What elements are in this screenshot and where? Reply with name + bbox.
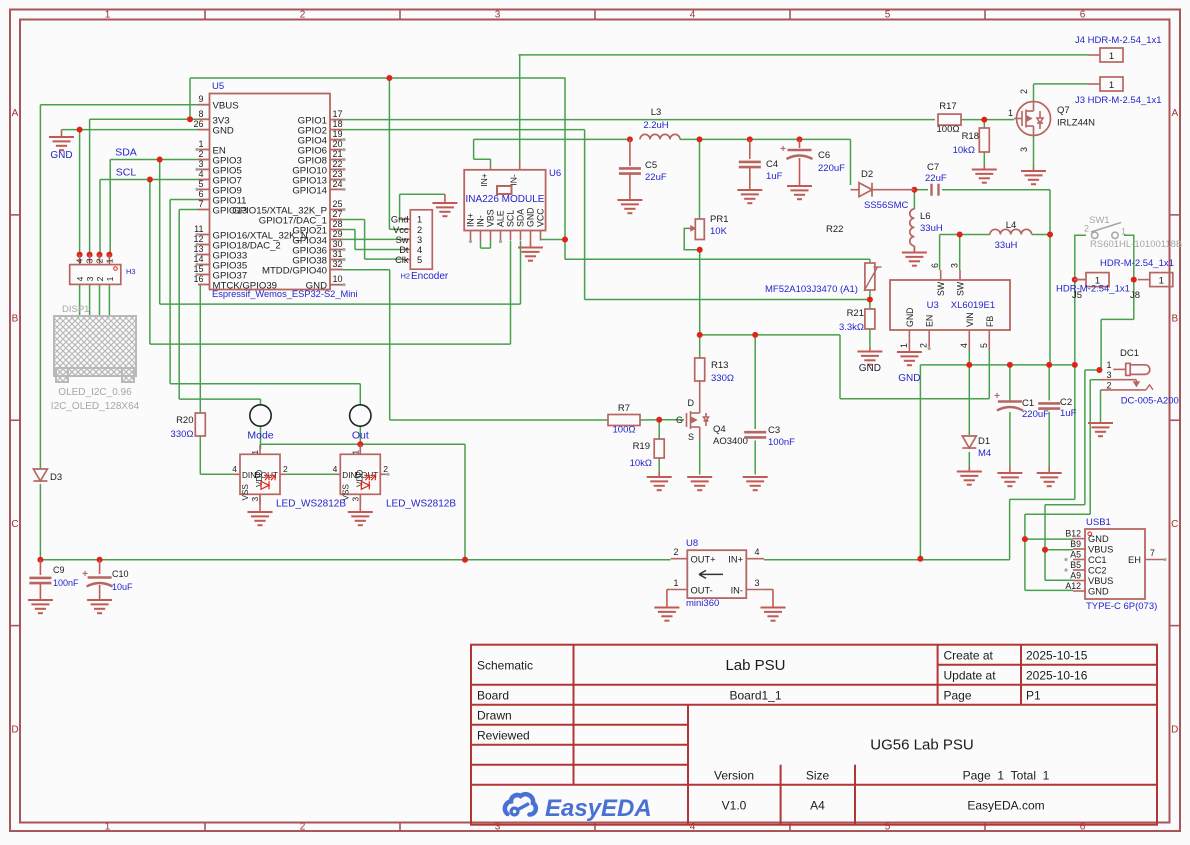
svg-text:V1.0: V1.0 <box>722 799 747 813</box>
svg-text:14: 14 <box>193 254 203 264</box>
svg-text:4: 4 <box>959 343 969 348</box>
svg-text:C3: C3 <box>768 425 780 436</box>
svg-text:Board: Board <box>477 689 509 703</box>
svg-text:D3: D3 <box>50 472 62 483</box>
svg-text:GND: GND <box>213 126 234 137</box>
svg-text:Dt: Dt <box>399 245 409 255</box>
svg-text:Reviewed: Reviewed <box>477 729 530 743</box>
svg-text:7: 7 <box>198 199 203 209</box>
svg-text:C6: C6 <box>818 150 830 161</box>
svg-text:A12: A12 <box>1065 581 1081 591</box>
svg-text:22uF: 22uF <box>645 172 667 183</box>
svg-text:CC1: CC1 <box>1088 555 1107 565</box>
svg-text:16: 16 <box>193 274 203 284</box>
svg-text:USB1: USB1 <box>1086 517 1111 528</box>
svg-text:4: 4 <box>690 822 696 833</box>
svg-text:100Ω: 100Ω <box>937 124 960 135</box>
svg-text:Encoder: Encoder <box>411 271 449 282</box>
svg-text:VBS: VBS <box>486 209 496 227</box>
svg-text:C9: C9 <box>53 565 65 575</box>
svg-text:3: 3 <box>350 497 360 502</box>
svg-text:2: 2 <box>1019 89 1029 94</box>
svg-text:31: 31 <box>333 249 343 259</box>
svg-text:DC1: DC1 <box>1120 348 1139 359</box>
svg-text:EasyEDA.com: EasyEDA.com <box>967 799 1044 813</box>
svg-text:C2: C2 <box>1060 397 1072 408</box>
svg-text:GND: GND <box>1088 587 1109 597</box>
svg-text:4: 4 <box>754 547 759 557</box>
svg-text:R18: R18 <box>962 131 979 142</box>
svg-text:U8: U8 <box>686 538 698 549</box>
svg-text:15: 15 <box>193 264 203 274</box>
svg-text:A: A <box>1171 108 1178 119</box>
svg-text:IN-: IN- <box>476 215 486 227</box>
svg-text:32: 32 <box>333 259 343 269</box>
svg-text:C1: C1 <box>1022 398 1034 409</box>
svg-text:C: C <box>11 519 18 530</box>
svg-text:Gnd: Gnd <box>391 215 409 225</box>
svg-text:XL6019E1: XL6019E1 <box>951 300 995 311</box>
svg-text:3: 3 <box>85 258 95 263</box>
svg-text:2: 2 <box>417 225 422 235</box>
svg-text:330Ω: 330Ω <box>171 429 194 440</box>
svg-text:2.2uH: 2.2uH <box>643 120 668 131</box>
svg-text:8: 8 <box>198 109 203 119</box>
svg-text:25: 25 <box>333 199 343 209</box>
svg-text:2: 2 <box>198 149 203 159</box>
svg-text:1: 1 <box>1109 80 1114 91</box>
svg-text:27: 27 <box>333 209 343 219</box>
svg-text:33uH: 33uH <box>920 223 943 234</box>
svg-text:A5: A5 <box>1070 550 1081 560</box>
svg-text:H2: H2 <box>401 272 411 281</box>
svg-text:Lab PSU: Lab PSU <box>725 657 785 674</box>
svg-text:IN-: IN- <box>509 174 519 186</box>
svg-text:10: 10 <box>333 274 343 284</box>
svg-text:GND: GND <box>50 150 72 161</box>
svg-text:VSS: VSS <box>241 484 250 501</box>
svg-text:R7: R7 <box>618 403 630 414</box>
svg-text:GND: GND <box>905 307 915 327</box>
svg-text:LED_WS2812B: LED_WS2812B <box>386 498 456 509</box>
svg-text:SW: SW <box>936 281 946 296</box>
svg-text:1: 1 <box>899 343 909 348</box>
svg-text:Update at: Update at <box>944 669 997 683</box>
svg-text:2: 2 <box>673 547 678 557</box>
svg-text:2: 2 <box>283 464 288 474</box>
svg-text:SDA: SDA <box>115 147 137 159</box>
svg-text:Q7: Q7 <box>1057 105 1070 116</box>
svg-text:3: 3 <box>85 276 95 281</box>
svg-text:2: 2 <box>300 822 306 833</box>
svg-text:GND: GND <box>1088 534 1109 544</box>
svg-text:2025-10-15: 2025-10-15 <box>1026 649 1088 663</box>
svg-text:FB: FB <box>985 316 995 327</box>
svg-text:220uF: 220uF <box>818 163 845 174</box>
svg-text:SCL: SCL <box>116 167 137 179</box>
svg-text:6: 6 <box>1080 10 1086 21</box>
svg-text:Create at: Create at <box>944 649 994 663</box>
svg-text:IRLZ44N: IRLZ44N <box>1057 118 1095 129</box>
svg-text:SW: SW <box>956 281 966 296</box>
svg-text:U6: U6 <box>549 168 561 179</box>
svg-text:INA226 MODULE: INA226 MODULE <box>466 194 545 205</box>
svg-text:1: 1 <box>1109 51 1114 62</box>
svg-text:VIN: VIN <box>965 312 975 327</box>
svg-text:13: 13 <box>193 244 203 254</box>
svg-text:4: 4 <box>75 258 85 263</box>
svg-text:+: + <box>994 391 1000 402</box>
svg-text:GPIO14: GPIO14 <box>292 185 327 196</box>
svg-text:19: 19 <box>333 129 343 139</box>
svg-text:1uF: 1uF <box>766 171 783 182</box>
svg-text:G: G <box>676 415 683 425</box>
svg-text:C5: C5 <box>645 160 657 171</box>
svg-text:SW1: SW1 <box>1089 215 1110 226</box>
svg-text:I2C_OLED_128X64: I2C_OLED_128X64 <box>51 401 140 412</box>
svg-text:OUT+: OUT+ <box>691 555 716 565</box>
svg-text:1: 1 <box>250 450 260 455</box>
svg-text:Q4: Q4 <box>713 424 726 435</box>
svg-text:SDA: SDA <box>516 209 526 227</box>
svg-text:Clk: Clk <box>395 255 409 265</box>
svg-text:D: D <box>688 398 695 408</box>
svg-text:3: 3 <box>495 10 501 21</box>
svg-text:HDR-M-2.54_1x1: HDR-M-2.54_1x1 <box>1056 284 1130 295</box>
svg-text:C4: C4 <box>766 159 778 170</box>
svg-text:DC-005-A200: DC-005-A200 <box>1121 396 1179 407</box>
svg-text:3: 3 <box>754 578 759 588</box>
svg-text:EN: EN <box>925 315 935 327</box>
svg-text:3: 3 <box>1106 370 1111 380</box>
svg-text:5: 5 <box>885 822 891 833</box>
svg-text:1uF: 1uF <box>1060 408 1077 419</box>
svg-text:UG56 Lab PSU: UG56 Lab PSU <box>870 737 973 754</box>
svg-text:Out: Out <box>352 430 369 442</box>
svg-text:VBUS: VBUS <box>1088 545 1113 555</box>
svg-text:1: 1 <box>1008 108 1013 118</box>
svg-text:18: 18 <box>333 119 343 129</box>
svg-text:TYPE-C 6P(073): TYPE-C 6P(073) <box>1086 601 1157 612</box>
svg-text:EasyEDA: EasyEDA <box>545 795 652 822</box>
svg-text:2: 2 <box>1084 224 1089 234</box>
svg-text:B9: B9 <box>1070 539 1081 549</box>
svg-text:R19: R19 <box>633 441 650 452</box>
svg-text:3: 3 <box>950 263 960 268</box>
svg-text:J4 HDR-M-2.54_1x1: J4 HDR-M-2.54_1x1 <box>1075 35 1162 46</box>
svg-text:10kΩ: 10kΩ <box>953 145 975 156</box>
svg-text:1: 1 <box>104 258 114 263</box>
svg-text:PR1: PR1 <box>710 214 728 225</box>
svg-text:4: 4 <box>75 276 85 281</box>
svg-text:M4: M4 <box>978 448 991 459</box>
svg-text:30: 30 <box>333 239 343 249</box>
svg-text:DISP1: DISP1 <box>62 304 89 315</box>
svg-text:SCL: SCL <box>506 210 516 227</box>
svg-text:MF52A103J3470 (A1): MF52A103J3470 (A1) <box>765 284 858 295</box>
svg-text:33uH: 33uH <box>995 240 1018 251</box>
svg-text:1: 1 <box>1159 276 1164 287</box>
svg-text:EH: EH <box>1128 555 1141 565</box>
svg-text:4: 4 <box>198 169 203 179</box>
svg-text:1: 1 <box>198 139 203 149</box>
svg-text:RS601HL-10100118B: RS601HL-10100118B <box>1090 239 1182 250</box>
svg-text:1: 1 <box>105 10 111 21</box>
svg-text:IN+: IN+ <box>728 555 743 565</box>
svg-text:SS56SMC: SS56SMC <box>864 200 908 211</box>
svg-text:Board1_1: Board1_1 <box>729 689 781 703</box>
svg-text:R22: R22 <box>826 224 843 235</box>
svg-text:9: 9 <box>198 94 203 104</box>
svg-text:28: 28 <box>333 219 343 229</box>
svg-text:ALE: ALE <box>496 210 506 227</box>
svg-text:1: 1 <box>350 450 360 455</box>
svg-text:A: A <box>12 108 19 119</box>
svg-text:J3 HDR-M-2.54_1x1: J3 HDR-M-2.54_1x1 <box>1075 95 1162 106</box>
svg-text:Sw: Sw <box>396 235 409 245</box>
svg-text:C10: C10 <box>112 569 129 579</box>
svg-text:5: 5 <box>979 343 989 348</box>
svg-text:2: 2 <box>919 343 929 348</box>
svg-text:12: 12 <box>193 234 203 244</box>
svg-text:3: 3 <box>1019 147 1029 152</box>
svg-text:L3: L3 <box>651 107 662 118</box>
svg-text:IN+: IN+ <box>479 173 489 187</box>
svg-text:22uF: 22uF <box>925 173 947 184</box>
svg-text:B5: B5 <box>1070 560 1081 570</box>
svg-text:B: B <box>1171 314 1178 325</box>
svg-text:R20: R20 <box>176 415 193 426</box>
svg-text:1: 1 <box>1106 360 1111 370</box>
svg-text:Page 1 Total 1: Page 1 Total 1 <box>963 769 1050 783</box>
svg-text:L6: L6 <box>920 211 931 222</box>
svg-text:1: 1 <box>1121 227 1126 237</box>
svg-text:1: 1 <box>105 822 111 833</box>
svg-text:2025-10-16: 2025-10-16 <box>1026 669 1088 683</box>
svg-text:R17: R17 <box>939 101 956 112</box>
svg-text:10uF: 10uF <box>112 582 133 592</box>
svg-text:D: D <box>11 724 18 735</box>
svg-text:6: 6 <box>1080 822 1086 833</box>
svg-text:U3: U3 <box>927 300 939 311</box>
svg-text:5: 5 <box>198 179 203 189</box>
svg-text:OLED_I2C_0.96: OLED_I2C_0.96 <box>58 387 132 398</box>
svg-text:10K: 10K <box>710 226 728 237</box>
svg-text:29: 29 <box>333 229 343 239</box>
svg-text:2: 2 <box>95 258 105 263</box>
svg-text:OUT-: OUT- <box>691 586 713 596</box>
svg-text:mini360: mini360 <box>686 598 719 609</box>
svg-text:Mode: Mode <box>247 430 273 442</box>
svg-text:3.3kΩ: 3.3kΩ <box>839 322 864 333</box>
svg-text:GND: GND <box>306 281 327 292</box>
svg-text:R21: R21 <box>847 308 864 319</box>
svg-text:CC2: CC2 <box>1088 566 1107 576</box>
svg-text:4: 4 <box>333 464 338 474</box>
svg-text:5: 5 <box>885 10 891 21</box>
svg-text:IN+: IN+ <box>466 213 476 227</box>
svg-text:GND: GND <box>526 207 536 227</box>
svg-text:5: 5 <box>417 255 422 265</box>
svg-text:VCC: VCC <box>536 208 546 227</box>
svg-text:1: 1 <box>673 578 678 588</box>
svg-text:GND: GND <box>859 363 881 374</box>
svg-text:+: + <box>82 569 88 580</box>
svg-text:D2: D2 <box>861 169 873 180</box>
svg-text:1: 1 <box>417 215 422 225</box>
svg-text:B12: B12 <box>1065 529 1081 539</box>
svg-text:4: 4 <box>232 464 237 474</box>
svg-text:4: 4 <box>417 245 422 255</box>
svg-text:J8: J8 <box>1130 290 1140 301</box>
svg-text:3: 3 <box>495 822 501 833</box>
svg-text:D: D <box>1171 724 1178 735</box>
svg-text:U5: U5 <box>212 81 224 92</box>
svg-text:1: 1 <box>105 276 115 281</box>
svg-text:7: 7 <box>1150 548 1155 558</box>
svg-text:220uF: 220uF <box>1022 409 1049 420</box>
svg-text:R13: R13 <box>711 360 728 371</box>
svg-text:22: 22 <box>333 159 343 169</box>
svg-text:VBUS: VBUS <box>1088 576 1113 586</box>
svg-text:H3: H3 <box>126 267 136 276</box>
svg-text:23: 23 <box>333 169 343 179</box>
svg-text:P1: P1 <box>1026 689 1041 703</box>
svg-text:Drawn: Drawn <box>477 709 512 723</box>
svg-text:330Ω: 330Ω <box>711 373 734 384</box>
svg-text:20: 20 <box>333 139 343 149</box>
svg-text:26: 26 <box>193 119 203 129</box>
svg-text:17: 17 <box>333 109 343 119</box>
svg-text:MTDD/GPIO40: MTDD/GPIO40 <box>262 266 327 277</box>
svg-text:Version: Version <box>714 769 754 783</box>
svg-text:VSS: VSS <box>341 484 350 501</box>
svg-text:4: 4 <box>690 10 696 21</box>
svg-text:24: 24 <box>333 179 343 189</box>
svg-text:100nF: 100nF <box>768 437 795 448</box>
svg-text:3: 3 <box>198 159 203 169</box>
svg-text:GND: GND <box>898 373 920 384</box>
svg-text:C7: C7 <box>927 162 939 173</box>
svg-text:2: 2 <box>383 464 388 474</box>
svg-text:C: C <box>1171 519 1178 530</box>
svg-text:IN-: IN- <box>731 586 743 596</box>
svg-text:AO3400: AO3400 <box>713 436 748 447</box>
svg-text:D1: D1 <box>978 436 990 447</box>
svg-text:3: 3 <box>417 235 422 245</box>
svg-text:3: 3 <box>250 497 260 502</box>
svg-text:10kΩ: 10kΩ <box>630 458 652 469</box>
svg-text:6: 6 <box>198 189 203 199</box>
svg-text:21: 21 <box>333 149 343 159</box>
svg-text:11: 11 <box>194 224 203 234</box>
svg-text:2: 2 <box>300 10 306 21</box>
svg-text:VBUS: VBUS <box>213 101 239 112</box>
svg-text:J5: J5 <box>1072 290 1082 301</box>
svg-text:100nF: 100nF <box>53 578 79 588</box>
svg-text:L4: L4 <box>1006 220 1017 231</box>
svg-text:Size: Size <box>806 769 830 783</box>
svg-text:2: 2 <box>95 276 105 281</box>
svg-text:Page: Page <box>944 689 972 703</box>
svg-text:LED_WS2812B: LED_WS2812B <box>276 498 346 509</box>
svg-text:Schematic: Schematic <box>477 659 533 673</box>
svg-text:S: S <box>688 432 694 442</box>
svg-text:A9: A9 <box>1070 571 1081 581</box>
svg-text:Vcc: Vcc <box>393 225 409 235</box>
svg-text:A4: A4 <box>810 799 825 813</box>
svg-text:2: 2 <box>1106 381 1111 391</box>
svg-text:+: + <box>780 144 786 155</box>
svg-text:100Ω: 100Ω <box>613 425 636 436</box>
svg-text:6: 6 <box>930 263 940 268</box>
svg-text:HDR-M-2.54_1x1: HDR-M-2.54_1x1 <box>1100 258 1174 269</box>
svg-text:B: B <box>12 314 19 325</box>
svg-text:MTCK/GPIO39: MTCK/GPIO39 <box>213 281 278 292</box>
